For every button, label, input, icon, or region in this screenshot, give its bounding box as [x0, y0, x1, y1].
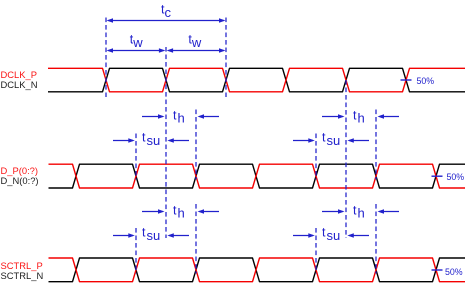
svg-text:tsu: tsu — [142, 131, 160, 148]
svg-text:th: th — [173, 203, 185, 220]
svg-text:tw: tw — [130, 33, 143, 50]
svg-text:tsu: tsu — [322, 226, 340, 243]
clock 50% marker — [401, 76, 435, 86]
svg-text:50%: 50% — [447, 172, 465, 182]
svg-text:th: th — [353, 108, 365, 125]
data 50% marker — [432, 172, 465, 182]
arrow th left (block2 right) — [322, 209, 345, 214]
dashed guide ctrl edge x=316 lower — [315, 228, 317, 274]
dimension arrow tw left (pulse width) — [107, 48, 166, 53]
arrow tsu left (block2 right) — [293, 233, 315, 238]
control 50% marker — [432, 267, 463, 277]
svg-text:50%: 50% — [445, 267, 463, 277]
wire DCLK_N trace (black differential clock) — [48, 68, 465, 92]
svg-text:DCLK_N: DCLK_N — [1, 79, 38, 90]
dashed guide ctrl edge x=136 lower — [135, 228, 137, 274]
arrow tsu left (block1 right) — [293, 138, 315, 143]
dashed guide ctrl edge x=376 lower — [375, 204, 377, 274]
svg-text:50%: 50% — [417, 76, 435, 86]
arrow tsu left (block2) — [113, 233, 135, 238]
wire SCTRL_N trace (black differential control) — [49, 258, 465, 282]
wire SCTRL_P trace (red differential control) — [49, 258, 465, 282]
dashed guide at clock edge x=346 (long) — [345, 80, 347, 238]
svg-text:D_N(0:?): D_N(0:?) — [1, 175, 39, 186]
arrow th right (block2 right) — [378, 209, 400, 214]
wire DCLK_P trace (red differential clock) — [48, 68, 465, 92]
svg-text:tsu: tsu — [142, 226, 160, 243]
dashed guide at clock edge x=166 (long) — [165, 47, 167, 238]
arrow tsu right (block2 right) — [347, 233, 369, 238]
svg-text:SCTRL_N: SCTRL_N — [1, 270, 44, 281]
arrow th right (block2) — [198, 209, 220, 214]
dashed guide at clock edge x=106 — [105, 18, 107, 98]
dashed guide ctrl edge x=196 lower — [195, 204, 197, 274]
dimension arrow tc (clock period) — [107, 18, 226, 23]
arrow th right (block1 right) — [378, 114, 400, 119]
arrow th left (block1 right) — [322, 114, 345, 119]
svg-text:th: th — [353, 203, 365, 220]
dimension arrow tw right (pulse width) — [167, 48, 226, 53]
dashed guide data edge x=316 upper — [315, 134, 317, 180]
svg-text:tsu: tsu — [322, 131, 340, 148]
dashed guide data edge x=376 upper — [375, 110, 377, 180]
arrow th left (block1) — [142, 114, 165, 119]
arrow tsu left (block1) — [113, 138, 135, 143]
wire D_N(0:?) trace (black differential data) — [49, 164, 465, 188]
svg-text:tw: tw — [188, 33, 201, 50]
arrow tsu right (block1 right) — [347, 138, 369, 143]
dashed guide data edge x=196 upper — [195, 110, 197, 180]
dashed guide data edge x=136 upper — [135, 134, 137, 180]
svg-text:tc: tc — [161, 3, 171, 20]
svg-text:th: th — [173, 108, 185, 125]
arrow th right (block1) — [198, 114, 220, 119]
arrow tsu right (block1) — [167, 138, 189, 143]
arrow th left (block2) — [142, 209, 165, 214]
wire D_P(0:?) trace (red differential data) — [49, 164, 465, 188]
dashed guide at clock edge x=226 — [225, 18, 227, 98]
arrow tsu right (block2) — [167, 233, 189, 238]
